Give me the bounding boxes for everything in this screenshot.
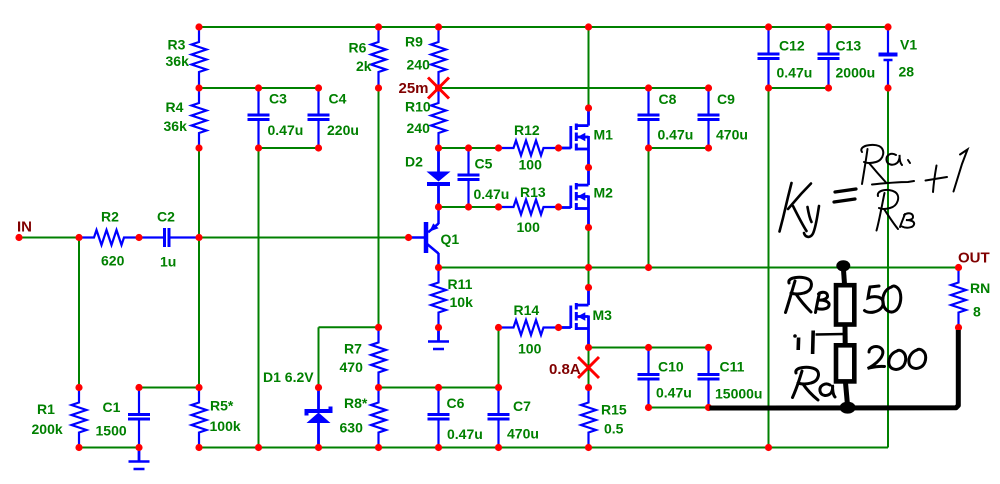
svg-text:C10: C10: [658, 359, 684, 375]
svg-text:0.47u: 0.47u: [777, 65, 813, 81]
svg-text:C11: C11: [720, 359, 745, 375]
svg-text:8: 8: [973, 304, 981, 320]
svg-text:R11: R11: [448, 276, 473, 292]
svg-text:0.47u: 0.47u: [658, 127, 694, 143]
svg-text:R7: R7: [344, 341, 362, 357]
svg-text:470: 470: [340, 359, 364, 375]
svg-text:630: 630: [340, 420, 364, 436]
svg-text:R12: R12: [514, 122, 540, 138]
svg-text:0.47u: 0.47u: [447, 426, 483, 442]
svg-text:M2: M2: [594, 185, 614, 201]
svg-text:M1: M1: [594, 127, 614, 143]
svg-text:D2: D2: [405, 154, 423, 170]
svg-text:470u: 470u: [507, 426, 539, 442]
svg-text:0.47u: 0.47u: [656, 385, 692, 401]
svg-text:28: 28: [899, 64, 915, 80]
svg-text:R10: R10: [405, 99, 431, 115]
svg-text:C12: C12: [779, 38, 805, 54]
svg-text:620: 620: [101, 253, 125, 269]
svg-text:C8: C8: [659, 91, 677, 107]
svg-text:R6: R6: [349, 40, 367, 56]
svg-text:36k: 36k: [166, 53, 190, 69]
svg-text:C5: C5: [475, 156, 493, 172]
svg-text:10k: 10k: [450, 294, 474, 310]
svg-text:R9: R9: [405, 34, 423, 50]
svg-text:V1: V1: [900, 37, 917, 53]
svg-text:220u: 220u: [327, 122, 359, 138]
svg-text:0.8A: 0.8A: [549, 361, 581, 378]
svg-text:R8*: R8*: [344, 395, 368, 411]
svg-text:R15: R15: [601, 402, 627, 418]
svg-text:2000u: 2000u: [836, 65, 876, 81]
svg-text:R4: R4: [166, 99, 184, 115]
svg-text:0.47u: 0.47u: [474, 186, 510, 202]
svg-text:0.47u: 0.47u: [268, 122, 304, 138]
svg-text:R13: R13: [520, 184, 546, 200]
svg-text:C4: C4: [329, 91, 347, 107]
svg-text:R2: R2: [101, 209, 119, 225]
svg-text:M3: M3: [593, 307, 613, 323]
svg-text:1500: 1500: [96, 423, 127, 439]
svg-text:100: 100: [519, 157, 543, 173]
svg-text:200k: 200k: [32, 421, 63, 437]
svg-text:C7: C7: [513, 398, 531, 414]
svg-text:2k: 2k: [356, 58, 372, 74]
svg-text:R5*: R5*: [210, 398, 234, 414]
svg-text:R3: R3: [168, 37, 186, 53]
svg-text:C3: C3: [269, 91, 287, 107]
svg-text:D1 6.2V: D1 6.2V: [263, 369, 314, 385]
svg-text:100: 100: [518, 341, 542, 357]
svg-text:RN: RN: [970, 280, 990, 296]
svg-text:0.5: 0.5: [604, 421, 624, 437]
svg-text:IN: IN: [17, 219, 32, 236]
svg-text:240: 240: [407, 120, 431, 136]
svg-text:C2: C2: [157, 209, 175, 225]
svg-text:R14: R14: [514, 302, 540, 318]
svg-text:Q1: Q1: [441, 231, 460, 247]
svg-text:C6: C6: [447, 395, 465, 411]
svg-text:240: 240: [407, 57, 431, 73]
svg-text:C9: C9: [717, 91, 735, 107]
svg-text:15000u: 15000u: [715, 386, 762, 402]
svg-text:25m: 25m: [399, 80, 429, 97]
svg-text:C1: C1: [103, 399, 121, 415]
svg-text:470u: 470u: [716, 127, 748, 143]
svg-text:C13: C13: [836, 38, 862, 54]
svg-text:36k: 36k: [164, 118, 188, 134]
svg-text:OUT: OUT: [958, 250, 990, 267]
svg-text:100: 100: [517, 219, 541, 235]
svg-text:R1: R1: [37, 401, 55, 417]
svg-text:100k: 100k: [210, 418, 241, 434]
svg-text:1u: 1u: [160, 254, 176, 270]
